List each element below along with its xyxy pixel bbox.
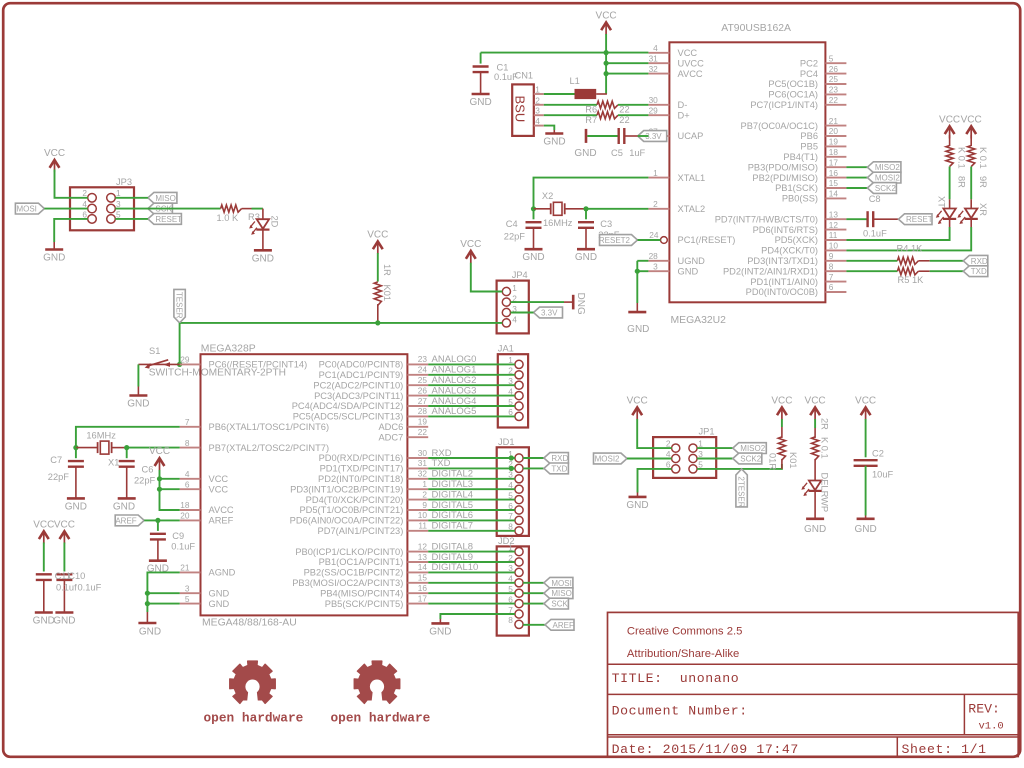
switch S1 arrowhead right <box>163 362 170 367</box>
JP1 pin 5 circle <box>689 465 697 473</box>
svg-text:JD1: JD1 <box>498 437 515 447</box>
svg-text:GND: GND <box>575 252 597 263</box>
wire GND pin3 <box>637 270 648 272</box>
svg-text:31: 31 <box>649 53 659 63</box>
svg-text:5: 5 <box>185 594 190 604</box>
svg-text:20: 20 <box>829 126 839 136</box>
svg-text:PC4: PC4 <box>800 69 818 79</box>
svg-text:6: 6 <box>829 282 834 292</box>
svg-text:UGND: UGND <box>678 256 706 266</box>
svg-text:VCC: VCC <box>627 395 648 406</box>
svg-text:27: 27 <box>418 396 428 406</box>
svg-text:AREF: AREF <box>115 516 136 525</box>
svg-text:0.1uF: 0.1uF <box>171 541 195 551</box>
IC2 pin 17 PB5(SCK/PCINT5) <box>407 603 428 605</box>
JD1 pin 6 circle <box>515 506 523 514</box>
svg-text:CN1: CN1 <box>515 71 534 81</box>
svg-text:X1: X1 <box>108 458 119 468</box>
JP1 pin 1 circle <box>689 444 697 452</box>
svg-text:PB3(PDO/MISO): PB3(PDO/MISO) <box>748 162 818 172</box>
LED PWRLED <box>809 481 821 491</box>
ground below C6 <box>118 497 136 500</box>
svg-text:RXD: RXD <box>971 257 988 266</box>
IC2 pin 27 PC4(ADC4/SDA/PCINT12) <box>407 405 428 407</box>
resistor R1 <box>374 282 381 306</box>
IC1 pin 10 PD4(XCK/T0) <box>825 249 846 251</box>
ground below IC2 <box>138 622 156 625</box>
svg-text:9: 9 <box>829 251 834 261</box>
ground below PWRLED <box>806 517 824 520</box>
svg-text:JP1: JP1 <box>699 427 715 437</box>
wire CN1 pin1 to L1 <box>544 93 575 95</box>
svg-text:8R: 8R <box>957 176 967 188</box>
LED TX <box>943 209 955 219</box>
capacitor C1 <box>473 65 489 67</box>
crystal X2 <box>550 203 552 214</box>
IC1 pin UCAP UCAP <box>648 135 669 137</box>
C11 lead to ground <box>43 580 45 613</box>
svg-text:21: 21 <box>829 116 839 126</box>
svg-text:GND: GND <box>626 500 648 511</box>
svg-text:PD0(RXD/PCINT16): PD0(RXD/PCINT16) <box>319 453 404 463</box>
svg-text:1R: 1R <box>382 264 392 276</box>
C8 lead to RESET flag <box>873 218 898 220</box>
wire to JD2 pin 6 <box>428 603 515 605</box>
wire X2 to XTAL2 pin2 <box>586 208 648 210</box>
svg-text:UCAP: UCAP <box>678 131 704 141</box>
ground below JP3 <box>45 248 63 251</box>
JA1 pin 3 circle <box>515 381 523 389</box>
svg-text:PB1(OC1A/PCINT1): PB1(OC1A/PCINT1) <box>319 557 404 567</box>
svg-text:R6: R6 <box>585 104 597 114</box>
IC1 pin 17 PB3(PDO/MISO) <box>825 166 846 168</box>
capacitor C1 lead <box>480 53 482 64</box>
JD2 ground stub <box>439 619 441 623</box>
net flag RESET vertical <box>174 289 185 323</box>
JD2 pin 4 circle <box>515 579 523 587</box>
svg-text:VCC: VCC <box>678 48 698 58</box>
junction at pin31 <box>604 61 609 66</box>
R5 lead <box>918 270 929 272</box>
svg-text:28: 28 <box>418 406 428 416</box>
svg-text:C5: C5 <box>611 148 623 158</box>
svg-text:21: 21 <box>180 563 190 573</box>
ground below C10 <box>55 611 73 614</box>
JP4 pin 3 circle <box>502 308 510 316</box>
JA1 pin 5 circle <box>515 402 523 410</box>
wire MOSI2 to JP1 pin4 <box>627 458 672 460</box>
IC1 pin 6 PD0(INT0/OC0B) <box>825 291 846 293</box>
wire JP1 pin6 to ground <box>638 469 672 493</box>
wire JP3 pin1 to MISO <box>115 197 148 199</box>
IC2 pin 23 PC0(ADC0/PCINT8) <box>407 363 428 365</box>
svg-text:PD2(INT0/PCINT18): PD2(INT0/PCINT18) <box>318 474 403 484</box>
power VCC arrow above R10 <box>777 407 787 415</box>
wire JD2 pin7 to ground <box>440 614 515 619</box>
junction GND pin5 <box>145 601 150 606</box>
wire JD2 to MOSI flag <box>523 582 544 584</box>
wire VCC to JP4 pin1 <box>471 263 503 292</box>
svg-text:4: 4 <box>666 449 671 459</box>
svg-text:MISO: MISO <box>551 589 571 598</box>
svg-text:2: 2 <box>82 188 87 198</box>
IC2 pin 9 PD5(T1/OC0B/PCINT21) <box>407 509 428 511</box>
svg-text:1: 1 <box>512 283 517 293</box>
JD1 pin 7 circle <box>515 516 523 524</box>
net flag TXD <box>963 266 988 277</box>
svg-text:3: 3 <box>535 106 540 116</box>
svg-text:XR: XR <box>978 203 988 216</box>
svg-text:PD3(INT3/TXD1): PD3(INT3/TXD1) <box>747 256 818 266</box>
ground below S1 <box>129 394 147 397</box>
svg-text:30: 30 <box>418 448 428 458</box>
JD1 pin 5 circle <box>515 496 523 504</box>
capacitor C2 <box>854 459 878 461</box>
svg-text:R5 1K: R5 1K <box>898 275 925 285</box>
svg-text:RESET: RESET <box>155 215 182 224</box>
CN1 pin 2 stub <box>534 104 544 106</box>
svg-text:4: 4 <box>653 43 658 53</box>
D2 lead to ground <box>262 230 264 251</box>
svg-text:1: 1 <box>422 479 427 489</box>
ground below C3 <box>577 248 595 251</box>
PWRLED lead to ground <box>814 491 816 519</box>
svg-text:JP4: JP4 <box>512 270 528 280</box>
JD1 pin 3 circle <box>515 475 523 483</box>
svg-text:MEGA48/88/168-AU: MEGA48/88/168-AU <box>202 618 297 629</box>
svg-text:C6: C6 <box>142 464 154 474</box>
JA1 pin 6 circle <box>515 412 523 420</box>
svg-text:PC1(/RESET): PC1(/RESET) <box>678 235 736 245</box>
wire JD1 pin1 to RXD flag <box>523 457 544 459</box>
IC2 pin 21 AGND <box>180 571 201 573</box>
resistor R5 <box>897 268 918 275</box>
inductor L1 <box>575 89 597 99</box>
wire JP4 pin3 to 3.3V flag <box>511 312 534 314</box>
svg-text:1: 1 <box>116 188 121 198</box>
svg-text:32: 32 <box>418 469 428 479</box>
net flag AREF left <box>115 515 144 526</box>
net flag SCK2 <box>867 183 896 194</box>
svg-text:JP3: JP3 <box>116 177 132 187</box>
svg-text:C7: C7 <box>50 455 62 465</box>
capacitor C7 lead <box>75 448 77 459</box>
ground below C2 <box>857 517 875 520</box>
svg-text:open hardware: open hardware <box>204 711 304 726</box>
IC2 pin 13 PB1(OC1A/PCINT1) <box>407 561 428 563</box>
wire X1 to PB7 pin8 <box>127 447 180 449</box>
svg-text:DELRWP: DELRWP <box>819 473 829 513</box>
title block row line 2 <box>608 693 1019 695</box>
svg-text:VCC: VCC <box>367 229 388 240</box>
L1 lead to VCC rail <box>596 93 607 95</box>
svg-text:3: 3 <box>185 583 190 593</box>
IC1 pin 32 AVCC <box>648 73 669 75</box>
wire AREF flag to pin20 <box>144 519 180 521</box>
junction JD1 pin1 <box>509 455 514 460</box>
IC1 pin 8 PD2(INT2/AIN1/RXD1) <box>825 270 846 272</box>
title block outline <box>608 612 1019 756</box>
svg-text:MOSI2: MOSI2 <box>595 455 620 464</box>
svg-text:PD3(INT1/OC2B/PCINT19): PD3(INT1/OC2B/PCINT19) <box>290 484 403 494</box>
svg-text:VCC: VCC <box>460 239 481 250</box>
net flag MOSI2 to JP1 <box>594 453 628 464</box>
IC1 pin 15 PB1(SCK) <box>825 187 846 189</box>
svg-text:11: 11 <box>418 521 427 531</box>
power VCC arrow left of IC2 <box>155 458 165 466</box>
wire ANALOG2 to JA1 <box>428 384 515 386</box>
wire CN1 pin2 to R6 <box>544 104 597 106</box>
svg-text:9R: 9R <box>978 176 988 188</box>
wire JD1 pin2 to TXD flag <box>523 467 544 469</box>
switch S1 arrowhead left <box>145 363 151 369</box>
JD1 pin 4 circle <box>515 485 523 493</box>
svg-text:GND: GND <box>429 626 451 637</box>
svg-text:RESET: RESET <box>906 215 933 224</box>
R2 lead top <box>814 428 816 438</box>
IC2 pin 24 PC1(ADC1/PCINT9) <box>407 374 428 376</box>
svg-text:PB3(MOSI/OC2A/PCINT3): PB3(MOSI/OC2A/PCINT3) <box>292 578 403 588</box>
svg-text:22: 22 <box>619 115 629 125</box>
svg-text:PB5(SCK/PCINT5): PB5(SCK/PCINT5) <box>325 599 404 609</box>
wire VCC to JP1 pin2 <box>637 419 671 448</box>
svg-text:1uF: 1uF <box>629 148 645 158</box>
svg-text:22: 22 <box>829 95 839 105</box>
wire JP1 pin1 to MISO2 flag <box>697 447 733 449</box>
svg-text:5: 5 <box>116 209 121 219</box>
net flag 3.3V on UCAP <box>638 131 667 142</box>
IC1 pin 3 GND <box>648 270 669 272</box>
svg-text:VCC: VCC <box>805 395 826 406</box>
junction at VCC/pin4 <box>604 50 609 55</box>
CN1 pin 3 stub <box>534 114 544 116</box>
IC2 pin 22 ADC7 <box>407 436 428 438</box>
svg-text:PC1(ADC1/PCINT9): PC1(ADC1/PCINT9) <box>319 370 404 380</box>
IC2 ground stub <box>146 612 148 623</box>
CN1 pin4 ground stub <box>553 130 555 134</box>
wire JP3 pin6 to ground <box>54 219 87 242</box>
wire to JD2 pin 5 <box>428 592 515 594</box>
svg-text:PB2(PDI/MISO): PB2(PDI/MISO) <box>752 173 818 183</box>
net flag MISO <box>148 192 177 203</box>
wire VCC to C10 <box>63 543 65 572</box>
IC2 pin 20 AREF <box>180 519 201 521</box>
capacitor C7 <box>68 460 84 462</box>
svg-text:15: 15 <box>418 573 428 583</box>
net flag SCK <box>544 598 569 609</box>
wire UGND down <box>636 261 638 303</box>
wire XTAL1 pin1 down-left <box>534 178 649 209</box>
LED RX lead down <box>970 219 972 227</box>
capacitor C9 lead <box>157 520 159 531</box>
svg-text:XTAL2: XTAL2 <box>678 204 706 214</box>
wire to pin 31 UVCC <box>606 62 648 64</box>
IC IC1 AT90USB162A box <box>669 42 825 302</box>
wire to pin 32 AVCC <box>606 73 648 75</box>
IC1 pin 19 PB5 <box>825 145 846 147</box>
svg-text:X2: X2 <box>542 191 553 201</box>
svg-text:13: 13 <box>418 552 428 562</box>
wire R6 to pin 30 D- <box>618 104 648 106</box>
C2 ground stub <box>865 516 867 519</box>
ground below D2 <box>254 249 272 252</box>
LED TX lead down <box>949 219 951 227</box>
svg-text:VCC: VCC <box>596 10 617 21</box>
ground below JP1 <box>629 496 647 499</box>
svg-text:MEGA328P: MEGA328P <box>201 344 256 355</box>
LED D2 <box>257 219 269 229</box>
svg-text:11: 11 <box>829 230 838 240</box>
svg-text:25: 25 <box>418 375 428 385</box>
IC1 pin 13 PD7(INT7/HWB/CTS/T0) <box>825 218 846 220</box>
svg-text:PC2: PC2 <box>800 58 818 68</box>
JP3 ground stub <box>53 242 55 250</box>
IC1 pin 30 D- <box>648 104 669 106</box>
svg-text:0.1uF: 0.1uF <box>863 229 887 239</box>
X2 lead left <box>534 208 551 210</box>
power VCC arrow above R1 <box>373 241 383 249</box>
svg-text:PC5(OC1B): PC5(OC1B) <box>768 79 818 89</box>
wire pin9 to R4 <box>846 260 897 262</box>
wire AGND pin21 down <box>147 572 179 612</box>
svg-text:v1.0: v1.0 <box>979 721 1004 733</box>
svg-text:GND: GND <box>252 253 274 264</box>
resistor R7 <box>597 112 618 119</box>
wire pin to MOSI2 flag <box>846 177 867 179</box>
capacitor C10 <box>56 573 72 575</box>
power VCC arrow above JP4 <box>466 251 476 259</box>
IC1 pin 31 UVCC <box>648 62 669 64</box>
wire VCC to R2 <box>814 419 816 428</box>
IC1 pin 16 PB2(PDI/MISO) <box>825 177 846 179</box>
LED RX lead top <box>970 199 972 208</box>
IC1 pin 24 PC1(/RESET) with inversion bubble <box>661 237 668 244</box>
svg-text:MISO: MISO <box>155 194 175 203</box>
JD2 pin 3 circle <box>515 568 523 576</box>
crystal X1 <box>97 442 99 453</box>
IC2 pin 1 PD3(INT1/OC2B/PCINT19) <box>407 488 428 490</box>
JD1 pin 1 circle <box>515 454 523 462</box>
wire JD2 to SCK flag <box>523 603 544 605</box>
wire to JD1 pin 3 <box>428 478 515 480</box>
wire to JD2 pin 2 <box>428 561 515 563</box>
junction AREF/C9 <box>155 518 160 523</box>
svg-text:6: 6 <box>82 209 87 219</box>
wire ANALOG0 to JA1 <box>428 363 515 365</box>
D2 lead down <box>262 209 264 220</box>
svg-text:1.0 K: 1.0 K <box>217 213 240 223</box>
svg-text:GND: GND <box>209 588 230 598</box>
svg-text:PD1(TXD/PCINT17): PD1(TXD/PCINT17) <box>320 464 404 474</box>
svg-text:MOSI2: MOSI2 <box>875 174 900 183</box>
connector JP1 box <box>653 437 716 478</box>
svg-text:GND: GND <box>854 524 876 535</box>
title block row line 3b <box>608 736 1019 738</box>
svg-text:TXD: TXD <box>971 267 987 276</box>
svg-text:6: 6 <box>666 459 671 469</box>
JP4 pin 2 circle <box>502 298 510 306</box>
power VCC arrow above R9 <box>966 126 976 134</box>
JD2 pin 5 circle <box>515 589 523 597</box>
svg-text:16: 16 <box>829 168 839 178</box>
svg-text:VCC: VCC <box>33 519 54 530</box>
IC2 pin 26 PC3(ADC3/PCINT11) <box>407 395 428 397</box>
wire MOSI to JP3 pin4 <box>44 208 87 210</box>
wire PB6 pin7 down-left <box>76 427 180 448</box>
svg-text:TESER: TESER <box>175 292 184 319</box>
wire CN1 pin3 to R7 <box>544 114 597 116</box>
resistor R2 <box>812 437 819 460</box>
ground stub IC1 <box>636 303 638 312</box>
power VCC arrow above C2 <box>861 407 871 415</box>
svg-text:6: 6 <box>185 479 190 489</box>
net flag RESET2 to PC1 <box>600 235 638 246</box>
IC1 pin 7 PD1(INT1/AIN0) <box>825 281 846 283</box>
C7 lead to ground <box>75 467 77 499</box>
svg-text:AREF: AREF <box>209 516 234 526</box>
svg-text:D+: D+ <box>678 110 690 120</box>
svg-text:VCC: VCC <box>44 148 65 159</box>
wire ANALOG3 to JA1 <box>428 395 515 397</box>
svg-text:2: 2 <box>666 439 671 449</box>
svg-text:AVCC: AVCC <box>678 69 703 79</box>
JP3 pin 2 circle <box>88 194 97 203</box>
power VCC arrow above JP1 <box>632 407 642 415</box>
wire JP3 pin3 through SCK to R3 <box>115 208 220 210</box>
svg-text:32: 32 <box>649 64 659 74</box>
svg-text:PD6(INT6/RTS): PD6(INT6/RTS) <box>753 225 818 235</box>
IC2 pin 31 PD1(TXD/PCINT17) <box>407 467 428 469</box>
JP1 pin 2 circle <box>672 444 680 452</box>
svg-text:19: 19 <box>829 137 839 147</box>
wire R7 to pin 29 D+ <box>618 114 648 116</box>
svg-text:MOSI: MOSI <box>551 579 571 588</box>
svg-text:22pF: 22pF <box>504 232 526 242</box>
wire pin13 to C8 cap <box>846 218 867 220</box>
wire S1 to ground <box>137 364 139 386</box>
net flag TXD at JD1 <box>544 463 569 474</box>
junction JD1 pin2 <box>509 466 514 471</box>
IC2 pin 30 PD0(RXD/PCINT16) <box>407 457 428 459</box>
svg-text:1: 1 <box>535 85 540 95</box>
svg-text:PD4(XCK/T0): PD4(XCK/T0) <box>761 246 818 256</box>
ground below C11 <box>35 611 53 614</box>
svg-text:VCC: VCC <box>771 395 792 406</box>
svg-text:0.1uF: 0.1uF <box>78 583 102 593</box>
JA1 pin 2 circle <box>515 371 523 379</box>
net flag 3.3V on JP4 pin3 <box>534 307 563 318</box>
svg-text:PB2(SS/OC1B/PCINT2): PB2(SS/OC1B/PCINT2) <box>304 568 404 578</box>
IC2 pin 11 PD7(AIN1/PCINT23) <box>407 530 428 532</box>
CN1 pin 1 stub <box>534 93 544 95</box>
svg-text:20: 20 <box>180 511 190 521</box>
resistor R10 <box>778 437 785 460</box>
svg-text:GND: GND <box>33 616 55 627</box>
svg-text:Date: 2015/11/09 17:47: Date: 2015/11/09 17:47 <box>612 742 799 757</box>
svg-text:GND: GND <box>522 252 544 263</box>
junction VCC pin6 <box>157 487 162 492</box>
svg-text:C8: C8 <box>869 194 881 204</box>
wire GND pin5 <box>147 603 179 605</box>
resistor R3 <box>221 205 242 212</box>
svg-text:2: 2 <box>653 199 658 209</box>
svg-text:GND: GND <box>543 136 565 147</box>
IC2 pin 8 PB7(XTAL2/TOSC2/PCINT7) <box>180 447 201 449</box>
svg-text:GND: GND <box>65 501 87 512</box>
svg-text:VCC: VCC <box>209 474 229 484</box>
ground below C7 <box>67 497 85 500</box>
svg-text:9: 9 <box>422 500 427 510</box>
